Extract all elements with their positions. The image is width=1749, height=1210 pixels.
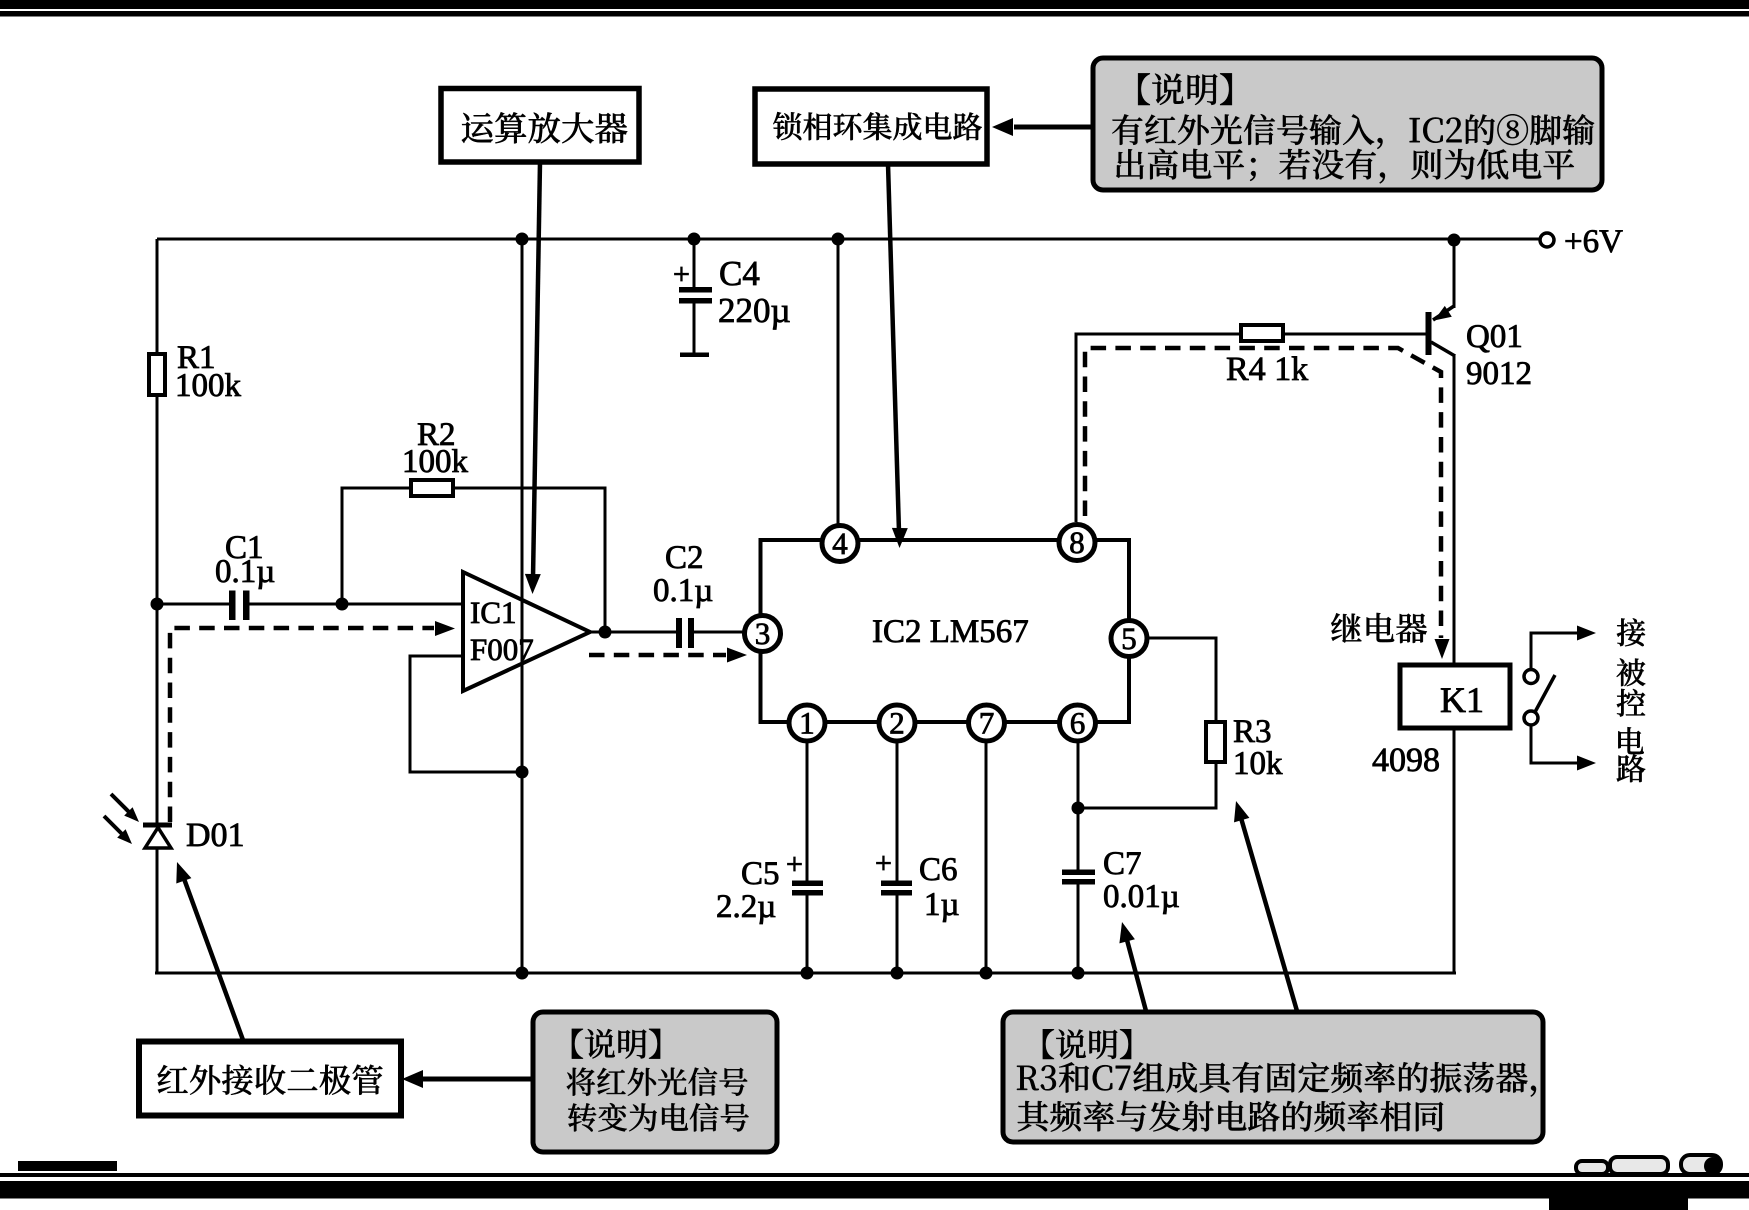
wire IC2 pin 2 to C6 xyxy=(896,741,899,881)
dashed arrow into op-amp xyxy=(435,621,455,636)
note arrow to C7 xyxy=(1127,940,1146,1011)
note arrow middle box to D01 xyxy=(183,876,243,1040)
node junction bus-pin4 xyxy=(832,233,845,246)
wire left branch upper (bus to R1) xyxy=(156,239,159,355)
note line 【说明】 middle xyxy=(572,1029,660,1059)
label C1 value 0.1µ xyxy=(216,560,274,589)
note line 【说明】 xyxy=(1138,73,1232,105)
node junction input-left xyxy=(151,598,164,611)
wire op-amp inverting feedback xyxy=(410,656,522,772)
callout box 红外接收二极管 xyxy=(139,1042,401,1116)
wire C1 to op-amp input xyxy=(248,603,464,606)
label C2 value 0.1µ xyxy=(654,579,712,608)
label R2 value 100k xyxy=(405,449,468,472)
resistor R2 xyxy=(411,480,453,496)
IC2 pin 5 xyxy=(1111,621,1147,657)
wire R2 left branch xyxy=(342,488,412,604)
node junction feedback xyxy=(516,766,529,779)
note box explanation middle xyxy=(533,1012,777,1152)
IC2 pin 8 xyxy=(1059,525,1095,561)
wire C4 lower stub xyxy=(693,303,696,354)
wire +6V top supply bus xyxy=(157,238,1540,241)
resistor R1 xyxy=(149,354,165,395)
dashed signal path op-amp output to pin 3 xyxy=(589,653,726,658)
callout box 锁相环集成电路 xyxy=(755,89,987,164)
wire IC2 pin 7 to bottom bus xyxy=(985,741,988,973)
wire relay K1 to bottom bus xyxy=(1453,728,1456,974)
wire R4 to Q01 base xyxy=(1282,333,1427,336)
node junction bus-C4 xyxy=(688,233,701,246)
node junction bottombus-C7 xyxy=(1072,967,1085,980)
note arrow to R3 xyxy=(1241,818,1297,1011)
IC U2 LM567 body xyxy=(761,540,1130,722)
label R2 xyxy=(418,423,454,445)
label K1 type 4098 xyxy=(1373,748,1439,771)
wire R2 right branch to output xyxy=(452,488,605,632)
label C2 xyxy=(666,546,701,568)
label C5 plus xyxy=(787,857,801,871)
dashed signal path pin 8 to Q01 to K1 xyxy=(1085,348,1441,638)
wire C2 to IC2 pin 3 xyxy=(693,631,745,634)
terminal +6V xyxy=(1540,233,1554,247)
label C4 value 220µ xyxy=(720,299,790,330)
switch blade xyxy=(1535,675,1555,712)
IC2 pin 1 xyxy=(789,705,825,741)
label IC1 type F007 xyxy=(471,639,533,660)
wire C6 to bottom bus xyxy=(896,895,899,973)
diode D01 light arrow 2 xyxy=(104,816,124,836)
wire bus to Q01 emitter xyxy=(1453,239,1456,308)
resistor R4 xyxy=(1241,325,1283,341)
label C1 xyxy=(226,536,261,558)
label +6V xyxy=(1566,230,1623,252)
wire Q01 collector to relay K1 xyxy=(1453,354,1456,666)
label K1 xyxy=(1441,688,1482,712)
note arrow from middle box to 红外 box xyxy=(415,1077,531,1082)
label R3 xyxy=(1234,720,1270,742)
label C5 xyxy=(742,862,778,884)
wire op-amp output to C2 xyxy=(588,631,677,634)
wire input node to C1 xyxy=(157,603,230,606)
relay K1 box xyxy=(1400,665,1510,728)
label 接被控电路 vertical xyxy=(1617,618,1645,646)
label 锁相环集成电路 xyxy=(773,112,981,140)
capacitor C2 xyxy=(676,618,682,648)
label C6 value 1µ xyxy=(927,893,959,922)
diode D01 triangle xyxy=(145,828,171,849)
transistor Q01 base bar xyxy=(1426,312,1432,355)
wire IC2 pin 6 to C7 xyxy=(1077,741,1080,870)
capacitor C4 polarized xyxy=(679,287,712,293)
node junction input-R2 xyxy=(336,598,349,611)
label Q01 xyxy=(1467,325,1520,352)
node junction output xyxy=(599,626,612,639)
note line 转变为电信号 xyxy=(568,1103,749,1132)
IC2 pin 3 xyxy=(745,616,781,652)
wire IC2 pin 5 to R3 xyxy=(1147,638,1216,723)
node junction bus-Q01 xyxy=(1448,234,1461,247)
label R4 value R4 1k xyxy=(1227,356,1308,380)
dashed arrow into pin 3 xyxy=(727,648,747,663)
label C5 value 2.2µ xyxy=(717,895,775,924)
switch upper arrow xyxy=(1577,626,1596,641)
switch contact lower xyxy=(1524,711,1538,725)
diode D01 light arrow 1 xyxy=(111,794,131,814)
label R1 value 100k xyxy=(178,373,241,396)
label D01 xyxy=(187,823,243,846)
label relay 继电器 xyxy=(1331,613,1427,643)
wire bottom bus xyxy=(155,972,1456,975)
switch upper wire xyxy=(1531,633,1577,669)
IC2 pin 2 xyxy=(879,705,915,741)
label C4 xyxy=(720,262,759,286)
label C4 plus xyxy=(674,267,688,281)
callout arrow to op-amp xyxy=(533,162,540,578)
label IC1 xyxy=(471,602,515,623)
transistor Q01 emitter xyxy=(1433,306,1454,320)
wire op-amp rail vertical x=522 xyxy=(521,239,524,973)
label C6 xyxy=(920,858,956,880)
switch lower arrow xyxy=(1577,756,1596,771)
note line R3和C7组成 xyxy=(1017,1062,1536,1097)
resistor R3 xyxy=(1206,722,1225,762)
note box explanation top right xyxy=(1093,58,1602,190)
callout arrow to IC2 xyxy=(888,164,899,532)
transistor Q01 collector xyxy=(1431,342,1455,356)
dashed signal path D01 to op-amp xyxy=(170,628,434,822)
wire C4 end bar xyxy=(680,353,709,358)
transistor Q01 emitter arrowhead xyxy=(1434,306,1452,321)
node junction pin6-R3 xyxy=(1072,802,1085,815)
node junction bottombus-C5 xyxy=(801,967,814,980)
callout box 运算放大器 xyxy=(441,89,639,163)
switch lower wire xyxy=(1531,725,1577,763)
wire left branch lower (R1 to D01) xyxy=(156,394,159,824)
label IC2 LM567 xyxy=(873,620,1028,642)
label R1 xyxy=(178,346,214,368)
IC2 pin 4 xyxy=(822,526,858,562)
wire IC2 pin 8 to R4 xyxy=(1076,334,1242,522)
note arrow to 锁相环 box xyxy=(1014,125,1091,130)
note line 将红外光信号 xyxy=(567,1067,748,1096)
label C6 plus xyxy=(876,856,890,870)
label R3 value 10k xyxy=(1236,751,1283,774)
capacitor C5 polarized xyxy=(792,881,823,887)
label 红外接收二极管 xyxy=(158,1065,383,1095)
node junction bottombus-pin7 xyxy=(980,967,993,980)
switch contact upper xyxy=(1524,670,1538,684)
note line 有红外光信号输入，IC2的⑧脚输 xyxy=(1112,114,1594,149)
note line 出高电平；若没有，则为低电平 xyxy=(1116,149,1574,184)
IC2 pin 7 xyxy=(969,705,1005,741)
note line 其频率与发射 xyxy=(1018,1101,1444,1132)
label 运算放大器 xyxy=(462,112,627,143)
node junction bottombus-rail xyxy=(516,967,529,980)
wire C5 to bottom bus xyxy=(806,895,809,973)
capacitor C6 polarized xyxy=(881,881,912,887)
capacitor C7 xyxy=(1062,870,1095,876)
label C7 value 0.01µ xyxy=(1104,885,1178,914)
wire IC2 pin 1 to C5 xyxy=(806,741,809,881)
wire C7 to bottom bus xyxy=(1077,884,1080,973)
note box explanation bottom right xyxy=(1003,1012,1543,1142)
wire bus to IC2 pin 4 xyxy=(837,239,840,525)
wire C4 to bus xyxy=(693,239,696,287)
diode D01 cathode bar xyxy=(143,823,172,828)
label C7 xyxy=(1104,852,1140,874)
op-amp IC1 triangle xyxy=(463,572,590,691)
note line 【说明】 right xyxy=(1043,1029,1131,1059)
wire left branch bottom (D01 to ground bus) xyxy=(156,847,159,974)
dashed arrow into K1 xyxy=(1435,639,1450,659)
IC2 pin 6 xyxy=(1060,705,1096,741)
node junction bus-opamp rail xyxy=(516,233,529,246)
node junction bottombus-C6 xyxy=(891,967,904,980)
label Q01 type 9012 xyxy=(1467,362,1530,384)
wire R3 to pin6 node xyxy=(1078,761,1216,808)
capacitor C1 xyxy=(229,591,236,621)
